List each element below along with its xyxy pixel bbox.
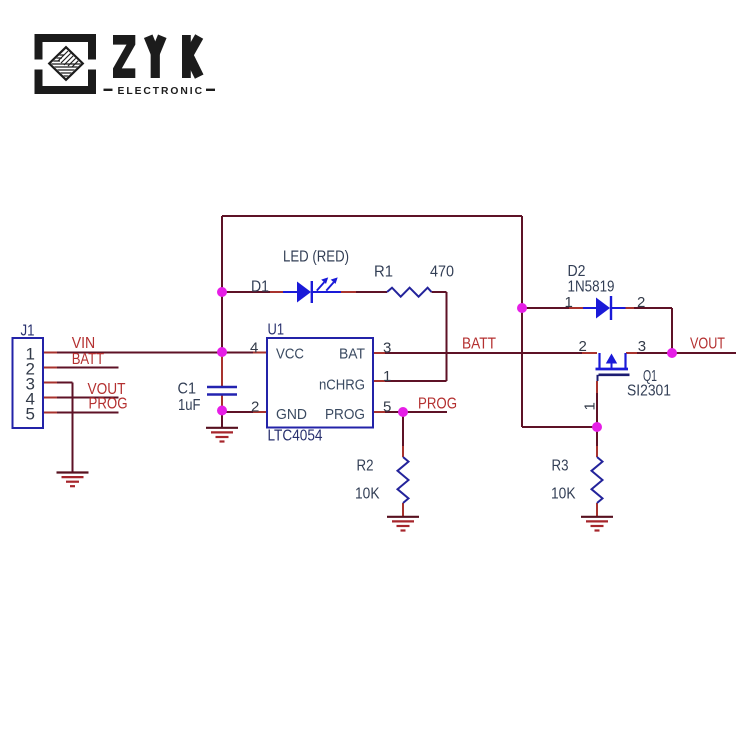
svg-text:VOUT: VOUT xyxy=(690,336,725,353)
svg-text:10K: 10K xyxy=(355,485,380,502)
svg-text:4: 4 xyxy=(250,339,258,356)
svg-text:BAT: BAT xyxy=(339,345,365,362)
svg-text:R3: R3 xyxy=(552,457,569,474)
svg-text:470: 470 xyxy=(430,263,454,280)
svg-text:LTC4054: LTC4054 xyxy=(268,427,323,444)
svg-text:1: 1 xyxy=(565,294,573,311)
svg-text:2: 2 xyxy=(579,338,587,355)
svg-text:1: 1 xyxy=(383,368,391,385)
svg-text:U1: U1 xyxy=(268,321,285,338)
svg-text:ELECTRONIC: ELECTRONIC xyxy=(118,86,203,97)
svg-text:2: 2 xyxy=(637,294,645,311)
svg-text:C1: C1 xyxy=(178,380,197,397)
svg-text:3: 3 xyxy=(383,339,391,356)
svg-text:VIN: VIN xyxy=(72,335,96,352)
svg-text:R2: R2 xyxy=(357,457,374,474)
svg-text:1N5819: 1N5819 xyxy=(568,278,615,295)
svg-text:J1: J1 xyxy=(21,322,35,339)
svg-text:5: 5 xyxy=(383,399,391,416)
svg-text:LED (RED): LED (RED) xyxy=(283,248,349,265)
svg-text:1: 1 xyxy=(582,402,599,410)
svg-text:5: 5 xyxy=(26,405,35,424)
svg-text:R1: R1 xyxy=(374,263,393,280)
svg-text:1uF: 1uF xyxy=(178,397,201,414)
svg-text:BATT: BATT xyxy=(462,335,496,352)
svg-text:nCHRG: nCHRG xyxy=(319,376,365,393)
svg-text:3: 3 xyxy=(638,338,646,355)
svg-text:GND: GND xyxy=(276,406,307,423)
svg-text:BATT: BATT xyxy=(72,351,105,368)
svg-text:D2: D2 xyxy=(568,263,586,280)
svg-text:PROG: PROG xyxy=(325,406,365,423)
svg-text:D1: D1 xyxy=(251,278,269,295)
svg-text:PROG: PROG xyxy=(418,396,457,413)
svg-text:2: 2 xyxy=(251,399,259,416)
svg-text:SI2301: SI2301 xyxy=(627,382,671,399)
svg-text:10K: 10K xyxy=(551,485,576,502)
svg-text:VCC: VCC xyxy=(276,345,304,362)
svg-text:PROG: PROG xyxy=(89,395,128,412)
